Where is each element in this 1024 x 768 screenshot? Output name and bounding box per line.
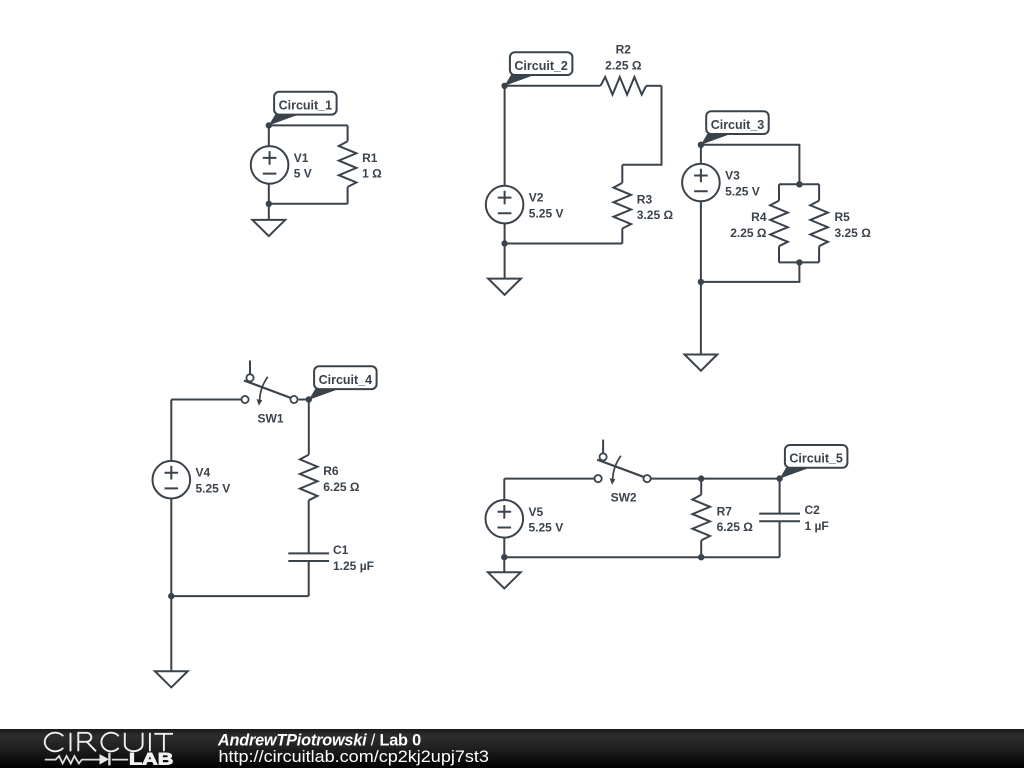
wire [308,500,310,553]
label Circuit_3 callout [701,111,769,145]
svg-text:R2: R2 [616,43,632,57]
wire [170,400,172,597]
wire [268,125,270,203]
voltage source V5 [486,500,524,538]
wire [700,282,702,355]
wire [503,479,505,558]
node N1 top [266,122,272,128]
resistor R4 [770,201,788,247]
wire [700,145,702,282]
svg-text:SW2: SW2 [611,491,637,505]
wire [504,86,506,244]
svg-text:V4: V4 [196,466,211,480]
wire [308,561,310,596]
svg-text:2.25 Ω: 2.25 Ω [730,226,767,240]
svg-text:5 V: 5 V [294,167,312,181]
wire [171,595,308,597]
svg-text:1 µF: 1 µF [805,519,829,533]
node N4 top [306,396,312,402]
svg-text:V1: V1 [294,151,309,165]
svg-text:LAB: LAB [129,750,173,768]
svg-text:2.25 Ω: 2.25 Ω [605,58,642,72]
svg-text:6.25 Ω: 6.25 Ω [717,520,754,534]
svg-text:Circuit_3: Circuit_3 [711,118,765,132]
label Circuit_1 callout [269,92,337,126]
svg-text:Circuit_2: Circuit_2 [514,59,568,73]
svg-text:Circuit_4: Circuit_4 [319,373,373,387]
svg-text:R4: R4 [751,210,767,224]
svg-text:Circuit_5: Circuit_5 [789,452,843,466]
capacitor C2 [759,514,800,522]
wire [503,557,505,572]
node N1 bottom [266,201,272,207]
svg-text:R5: R5 [835,210,851,224]
node N3 par-top [796,181,802,187]
capacitor C1 [288,553,329,561]
wire [504,244,506,279]
CircuitLab logo "CIRCUIT" [45,733,173,752]
svg-text:Circuit_1: Circuit_1 [279,99,333,113]
node N3 bottom [698,279,704,285]
svg-text:1.25 µF: 1.25 µF [333,559,374,573]
node N5 top [776,475,782,481]
node N4 bottom [168,593,174,599]
node N2 bottom [501,240,507,246]
switch SW2 [595,440,651,485]
svg-text:R3: R3 [637,192,653,206]
node N3 top [698,142,704,148]
wire [170,596,172,671]
svg-text:C1: C1 [333,543,349,557]
wire [505,85,601,87]
voltage source V2 [486,186,524,224]
wire [621,165,623,244]
svg-text:5.25 V: 5.25 V [529,521,564,535]
wire [818,184,820,262]
svg-text:C2: C2 [805,503,821,517]
voltage source V1 [251,146,289,184]
wire [778,184,780,262]
wire [268,204,270,220]
wire [504,478,594,480]
resistor R2 [601,77,647,95]
label Circuit_5 callout [780,445,848,479]
svg-text:1 Ω: 1 Ω [362,167,382,181]
wire [504,556,779,558]
svg-text:3.25 Ω: 3.25 Ω [637,208,674,222]
logo resistor-diode squiggle [45,753,128,766]
svg-text:R7: R7 [717,504,733,518]
wire [347,125,349,203]
wire [299,399,309,401]
svg-text:V3: V3 [725,169,740,183]
svg-text:SW1: SW1 [257,412,283,426]
wire [171,399,241,401]
label Circuit_4 callout [309,366,377,400]
node N3 par-bottom [796,259,802,265]
wire [779,479,781,558]
wire [505,243,623,245]
voltage source V3 [682,164,720,202]
wire [622,86,661,165]
svg-text:R6: R6 [323,464,339,478]
svg-text:R1: R1 [362,151,378,165]
wire [700,479,702,558]
node N2 top [501,83,507,89]
ground [685,355,718,371]
wire [651,478,780,480]
wire [779,261,819,263]
wire [701,262,800,282]
node N5 mid [698,475,704,481]
switch SW1 [241,361,297,406]
svg-text:6.25 Ω: 6.25 Ω [323,480,360,494]
ground [252,220,285,236]
svg-text:V5: V5 [529,505,544,519]
ground [488,572,521,588]
wire [646,85,661,87]
svg-text:5.25 V: 5.25 V [529,206,564,220]
svg-text:V2: V2 [529,191,544,205]
svg-text:5.25 V: 5.25 V [725,184,760,198]
node N5 bottom-mid [698,554,704,560]
svg-text:3.25 Ω: 3.25 Ω [835,226,872,240]
ground [488,279,521,295]
wire [269,124,348,126]
resistor R5 [810,201,828,247]
node N5 bottom-left [501,554,507,560]
label Circuit_2 callout [505,52,573,86]
svg-text:5.25 V: 5.25 V [196,482,231,496]
resistor R6 [300,455,318,501]
wire [779,183,819,185]
resistor R7 [692,495,710,541]
svg-text:http://circuitlab.com/cp2kj2up: http://circuitlab.com/cp2kj2upj7st3 [219,748,489,766]
ground [155,671,188,687]
resistor R3 [614,183,632,229]
voltage source V4 [153,461,191,499]
wire [701,145,800,185]
wire [308,400,310,455]
resistor R1 [339,141,357,187]
wire [269,203,348,205]
